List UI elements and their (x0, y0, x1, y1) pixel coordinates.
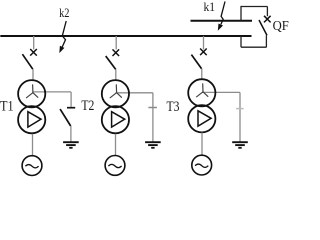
svg-text:k1: k1 (204, 0, 216, 14)
svg-text:k2: k2 (59, 6, 69, 20)
svg-text:T3: T3 (167, 99, 180, 115)
svg-text:T2: T2 (81, 98, 94, 114)
svg-text:QF: QF (273, 18, 289, 33)
svg-text:T1: T1 (0, 99, 14, 115)
